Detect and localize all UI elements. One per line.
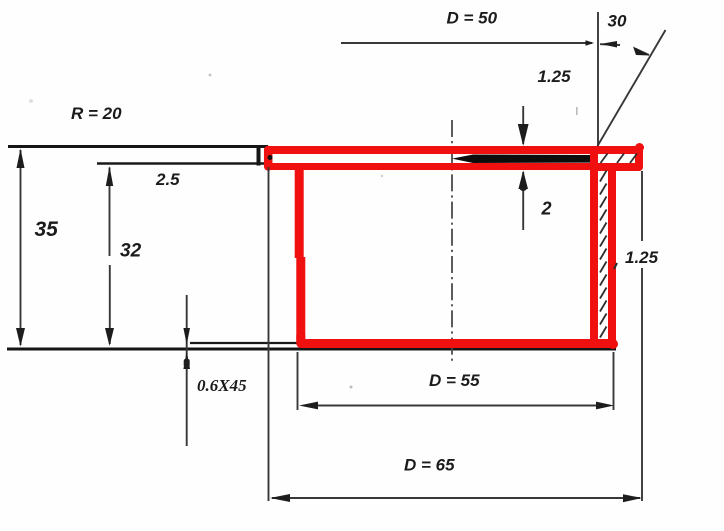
svg-text:D = 55: D = 55 — [429, 371, 480, 390]
svg-text:1.25: 1.25 — [538, 67, 572, 86]
svg-text:2: 2 — [541, 199, 552, 219]
svg-text:1.25: 1.25 — [625, 248, 659, 267]
svg-text:0.6X45: 0.6X45 — [197, 376, 247, 395]
svg-text:2.5: 2.5 — [155, 170, 180, 189]
svg-text:32: 32 — [120, 241, 142, 262]
svg-text:D = 65: D = 65 — [404, 456, 455, 475]
svg-text:R = 20: R = 20 — [71, 104, 122, 123]
svg-text:30: 30 — [608, 12, 627, 31]
svg-text:D = 50: D = 50 — [447, 9, 498, 28]
svg-text:35: 35 — [35, 218, 59, 241]
